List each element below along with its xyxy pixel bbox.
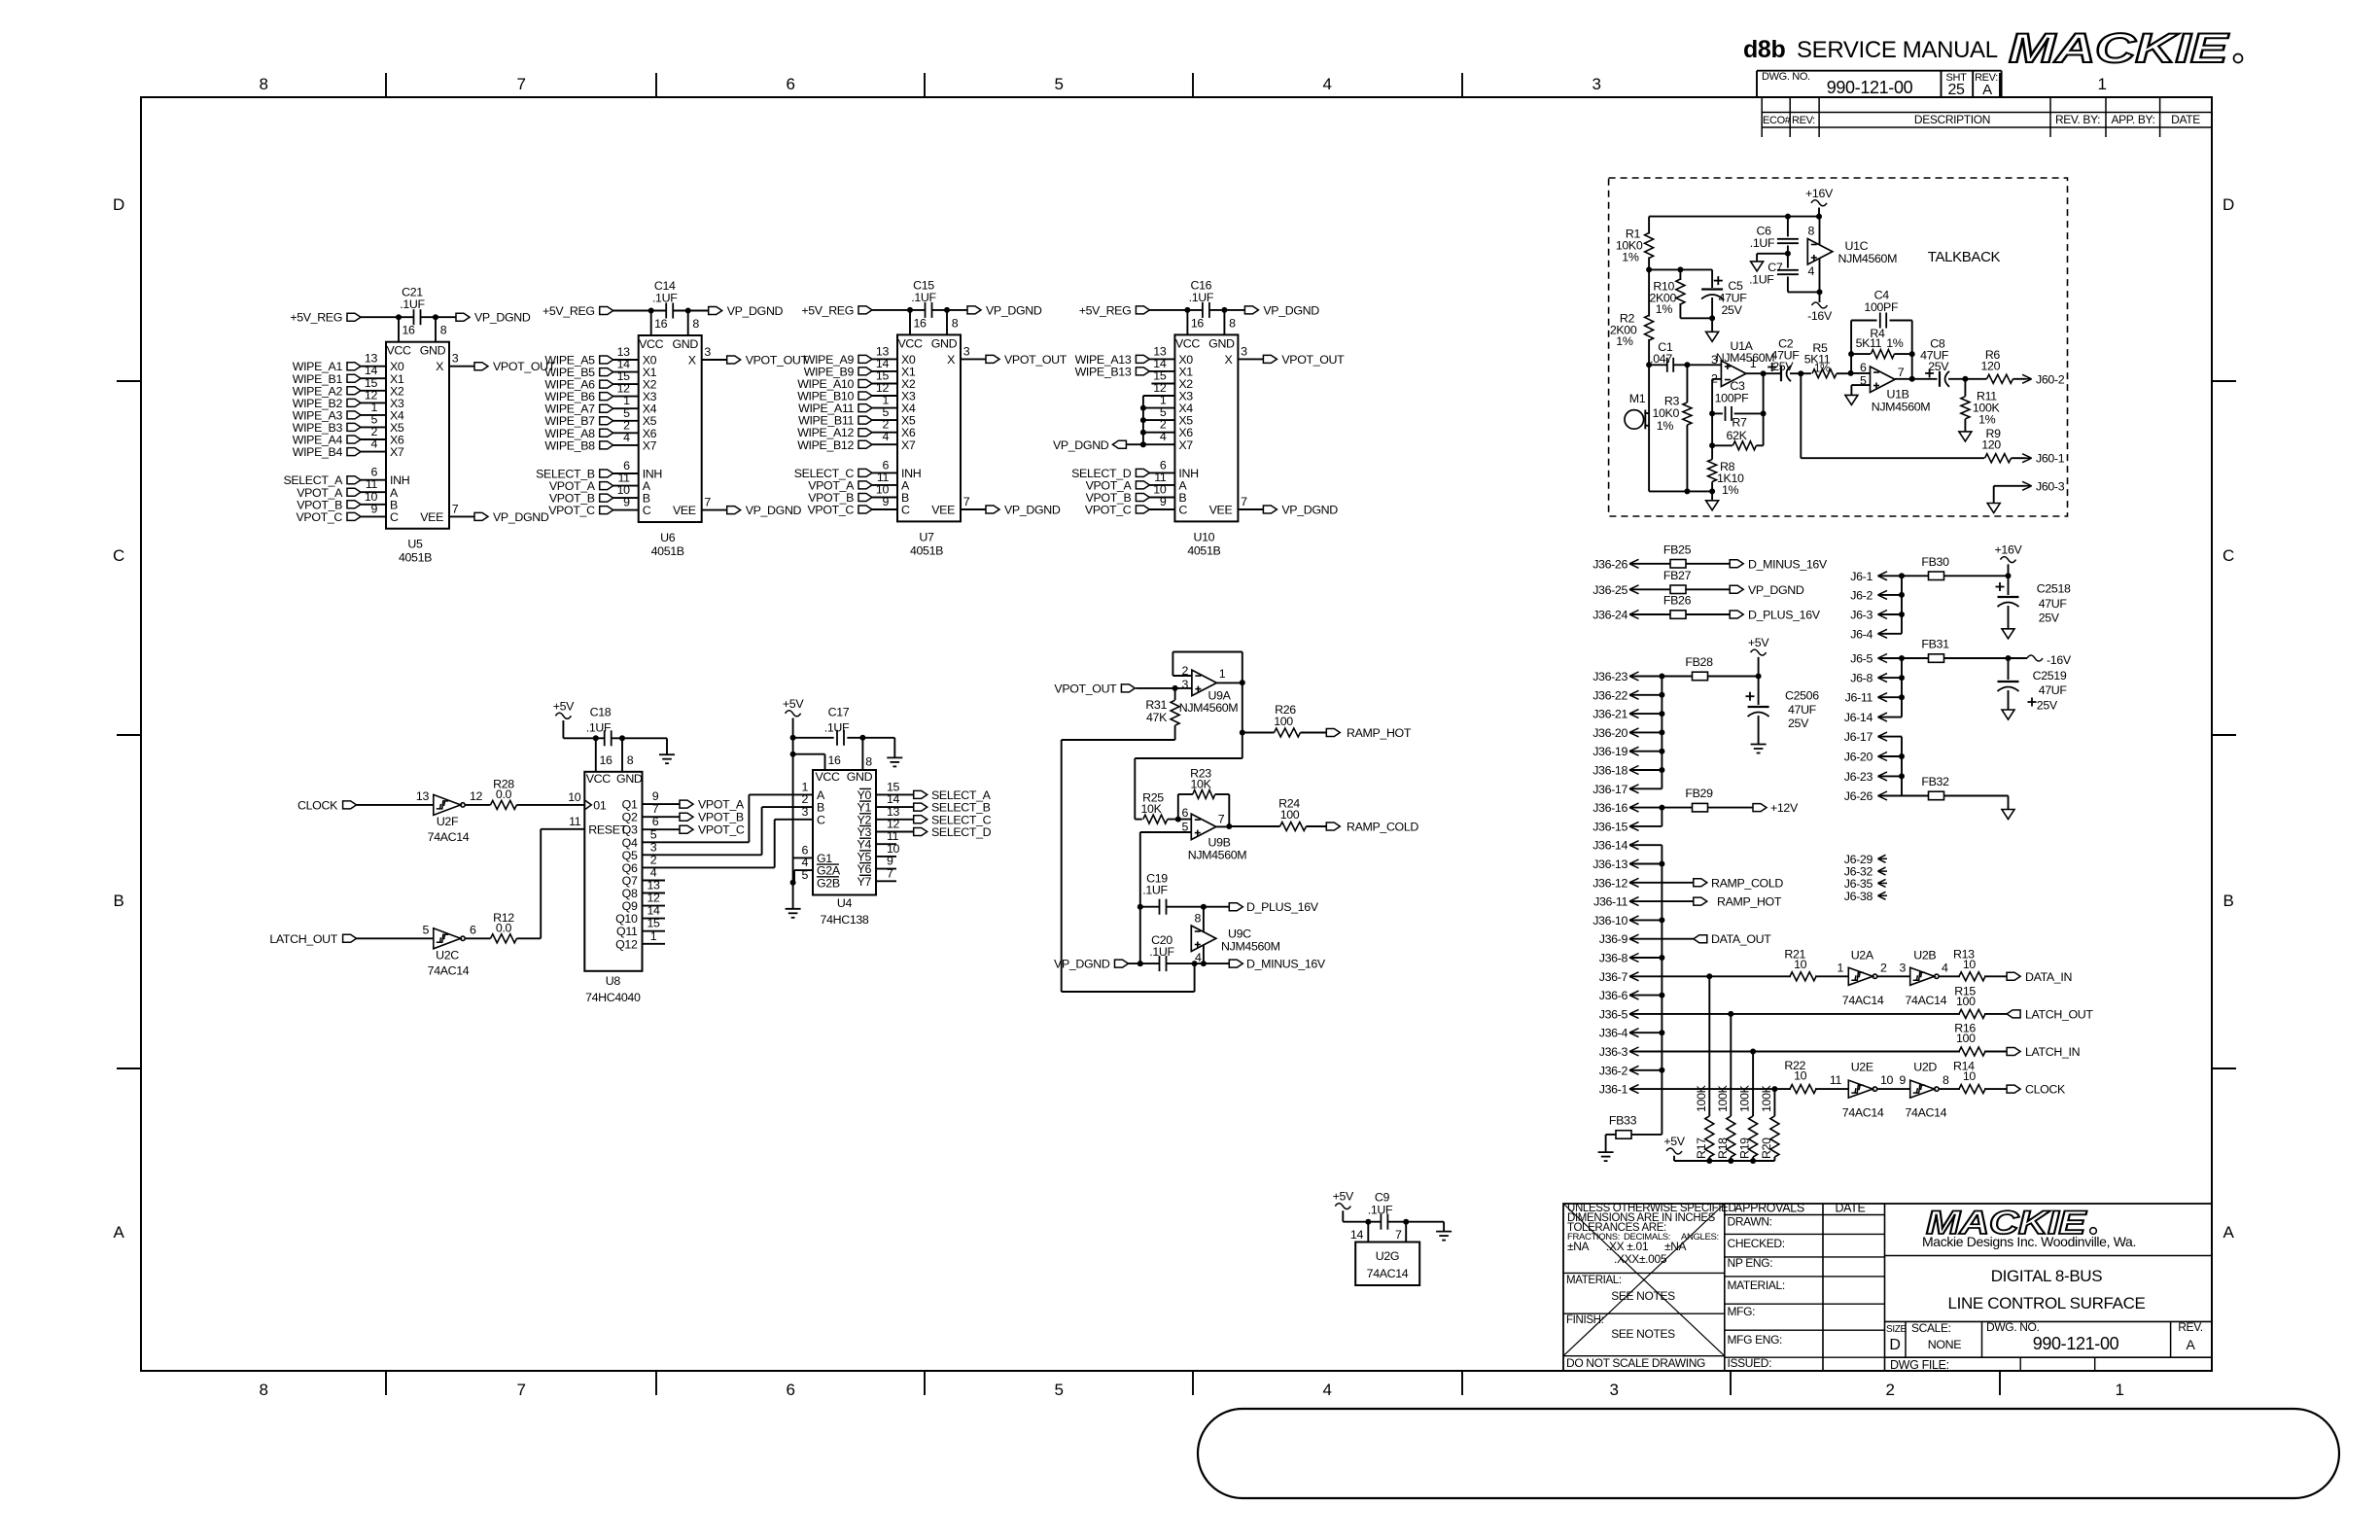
svg-text:J36-17: J36-17: [1592, 783, 1627, 796]
svg-text:J36-14: J36-14: [1592, 839, 1627, 853]
svg-text:Q1: Q1: [622, 798, 638, 812]
svg-text:+12V: +12V: [1770, 801, 1799, 815]
svg-text:U2D: U2D: [1913, 1061, 1937, 1074]
svg-text:8: 8: [1807, 225, 1814, 238]
svg-text:C: C: [2222, 546, 2234, 565]
svg-text:R18: R18: [1716, 1137, 1730, 1159]
svg-text:U1B: U1B: [1886, 388, 1908, 402]
svg-text:6: 6: [1860, 361, 1867, 374]
svg-text:G2B: G2B: [817, 876, 840, 890]
svg-text:10: 10: [1880, 1073, 1894, 1087]
svg-text:X7: X7: [390, 445, 404, 459]
svg-text:J36-8: J36-8: [1599, 952, 1628, 965]
svg-text:J6-4: J6-4: [1850, 627, 1872, 641]
svg-text:J36-15: J36-15: [1592, 820, 1627, 833]
svg-text:74AC14: 74AC14: [1906, 994, 1947, 1007]
svg-text:+5V: +5V: [783, 697, 804, 711]
svg-text:74AC14: 74AC14: [1906, 1106, 1947, 1120]
svg-text:7: 7: [516, 75, 525, 93]
svg-text:±NA: ±NA: [1664, 1240, 1687, 1253]
svg-text:D: D: [1889, 1337, 1900, 1353]
svg-text:3: 3: [1241, 344, 1247, 358]
svg-text:NJM4560M: NJM4560M: [1179, 701, 1239, 715]
svg-text:.1UF: .1UF: [400, 297, 425, 311]
svg-text:CHECKED:: CHECKED:: [1728, 1237, 1785, 1250]
svg-text:5: 5: [1054, 75, 1063, 93]
svg-text:FB31: FB31: [1921, 638, 1949, 651]
svg-text:C2506: C2506: [1785, 689, 1819, 703]
svg-text:Q8: Q8: [622, 887, 638, 900]
svg-text:C18: C18: [590, 706, 612, 719]
svg-text:10: 10: [1794, 1069, 1807, 1083]
svg-text:FB32: FB32: [1921, 775, 1949, 788]
svg-text:100K: 100K: [1738, 1084, 1752, 1112]
svg-text:74HC138: 74HC138: [821, 913, 869, 927]
svg-text:VPOT_OUT: VPOT_OUT: [1004, 353, 1067, 367]
svg-text:J60-3: J60-3: [2036, 479, 2065, 493]
svg-text:VCC: VCC: [897, 336, 923, 350]
svg-text:VCC: VCC: [1175, 336, 1201, 350]
svg-text:WIPE_B12: WIPE_B12: [797, 438, 854, 452]
svg-text:CLOCK: CLOCK: [297, 798, 338, 812]
svg-text:1%: 1%: [1656, 302, 1673, 316]
svg-text:1%: 1%: [1722, 483, 1739, 497]
svg-text:10: 10: [1963, 1069, 1977, 1083]
svg-text:.1UF: .1UF: [1368, 1203, 1393, 1216]
svg-text:LINE CONTROL SURFACE: LINE CONTROL SURFACE: [1947, 1294, 2145, 1312]
svg-text:C: C: [817, 813, 825, 826]
svg-text:NP ENG:: NP ENG:: [1728, 1256, 1773, 1270]
svg-text:10K: 10K: [1191, 778, 1212, 791]
svg-text:R31: R31: [1145, 698, 1167, 712]
svg-text:6: 6: [786, 75, 794, 93]
svg-text:5: 5: [422, 923, 429, 936]
svg-text:100: 100: [1280, 808, 1300, 822]
svg-text:4: 4: [882, 430, 889, 443]
svg-text:Q10: Q10: [615, 912, 638, 926]
svg-text:U2G: U2G: [1376, 1249, 1399, 1263]
svg-text:VEE: VEE: [420, 510, 443, 524]
svg-text:SEE NOTES: SEE NOTES: [1611, 1327, 1675, 1341]
svg-text:MATERIAL:: MATERIAL:: [1566, 1275, 1622, 1286]
svg-text:+5V: +5V: [1663, 1135, 1685, 1148]
svg-text:8: 8: [865, 755, 872, 769]
svg-text:7: 7: [1218, 813, 1225, 826]
svg-text:FB29: FB29: [1685, 787, 1713, 800]
svg-text:7: 7: [1898, 366, 1905, 379]
svg-text:DESCRIPTION: DESCRIPTION: [1914, 113, 1990, 126]
svg-text:FB30: FB30: [1921, 555, 1949, 569]
svg-text:ANGLES:: ANGLES:: [1681, 1232, 1719, 1242]
svg-text:GND: GND: [931, 336, 958, 350]
svg-text:.1UF: .1UF: [1149, 945, 1174, 959]
svg-text:M1: M1: [1629, 392, 1646, 405]
svg-text:7: 7: [452, 502, 459, 515]
svg-text:13: 13: [416, 789, 430, 803]
svg-text:J36-2: J36-2: [1599, 1064, 1628, 1077]
svg-text:WIPE_B4: WIPE_B4: [293, 445, 343, 459]
svg-text:74AC14: 74AC14: [1367, 1267, 1409, 1280]
svg-text:J6-35: J6-35: [1844, 877, 1873, 891]
svg-text:J36-25: J36-25: [1592, 583, 1627, 597]
svg-text:14: 14: [647, 904, 660, 918]
svg-text:C: C: [113, 546, 124, 565]
svg-text:-16V: -16V: [1807, 309, 1833, 323]
svg-text:Mackie Designs Inc. Woodinvi: Mackie Designs Inc. Woodinville, Wa.: [1922, 1234, 2136, 1249]
svg-text:4051B: 4051B: [1187, 543, 1220, 557]
svg-text:1: 1: [650, 929, 657, 943]
svg-text:J36-18: J36-18: [1592, 764, 1627, 778]
svg-text:B: B: [2223, 892, 2234, 910]
svg-text:12: 12: [470, 789, 483, 803]
svg-text:2: 2: [650, 853, 657, 866]
svg-text:8: 8: [627, 753, 634, 767]
svg-text:1: 1: [2115, 1381, 2123, 1399]
svg-text:CLOCK: CLOCK: [2025, 1083, 2066, 1097]
svg-text:Q2: Q2: [622, 811, 638, 824]
svg-text:U8: U8: [606, 974, 621, 988]
svg-text:3: 3: [704, 345, 711, 359]
svg-text:D_MINUS_16V: D_MINUS_16V: [1748, 557, 1828, 571]
svg-text:J60-2: J60-2: [2036, 372, 2065, 386]
svg-text:DATE: DATE: [2171, 113, 2200, 126]
svg-text:APP. BY:: APP. BY:: [2111, 113, 2154, 126]
svg-text:D_PLUS_16V: D_PLUS_16V: [1246, 900, 1319, 914]
svg-text:U6: U6: [660, 531, 676, 544]
svg-text:+16V: +16V: [1995, 543, 2023, 557]
svg-text:VPOT_OUT: VPOT_OUT: [1281, 353, 1345, 367]
svg-text:J36-13: J36-13: [1592, 857, 1627, 871]
svg-text:+5V_REG: +5V_REG: [801, 303, 854, 317]
svg-text:R7: R7: [1732, 416, 1747, 430]
svg-text:0.0: 0.0: [496, 787, 512, 801]
svg-text:J36-3: J36-3: [1599, 1045, 1628, 1059]
svg-text:Q6: Q6: [622, 861, 638, 875]
svg-text:LATCH_OUT: LATCH_OUT: [2025, 1007, 2093, 1021]
svg-text:ISSUED:: ISSUED:: [1728, 1356, 1772, 1370]
svg-text:74HC4040: 74HC4040: [585, 991, 641, 1004]
svg-text:-16V: -16V: [2047, 653, 2072, 667]
svg-text:8: 8: [259, 75, 267, 93]
svg-text:VPOT_OUT: VPOT_OUT: [746, 354, 809, 367]
svg-text:U2F: U2F: [437, 815, 459, 828]
svg-text:3: 3: [1181, 678, 1188, 691]
svg-text:5: 5: [650, 827, 657, 841]
svg-text:100K: 100K: [1760, 1084, 1773, 1112]
svg-text:4: 4: [1942, 961, 1948, 974]
svg-text:8: 8: [440, 324, 447, 337]
svg-text:+5V: +5V: [553, 699, 575, 713]
svg-text:25V: 25V: [1928, 360, 1949, 373]
svg-text:GND: GND: [1208, 336, 1235, 350]
svg-text:DATA_IN: DATA_IN: [2025, 970, 2072, 984]
svg-text:J6-8: J6-8: [1850, 672, 1872, 685]
svg-text:10: 10: [568, 790, 581, 804]
svg-text:J6-20: J6-20: [1844, 751, 1873, 764]
svg-text:.1UF: .1UF: [1750, 236, 1775, 250]
svg-text:J6-5: J6-5: [1850, 652, 1872, 666]
svg-text:10: 10: [1794, 958, 1807, 971]
svg-text:VP_DGND: VP_DGND: [1281, 504, 1338, 517]
svg-text:VCC: VCC: [586, 772, 612, 786]
svg-text:4: 4: [650, 866, 657, 880]
svg-text:100: 100: [1956, 995, 1976, 1008]
svg-text:Q4: Q4: [622, 836, 638, 850]
svg-text:+5V_REG: +5V_REG: [290, 311, 342, 325]
svg-text:25V: 25V: [2037, 699, 2058, 713]
svg-text:3: 3: [452, 352, 459, 366]
svg-text:4: 4: [623, 431, 630, 444]
svg-text:47UF: 47UF: [2039, 683, 2068, 697]
svg-text:8: 8: [1942, 1073, 1949, 1087]
svg-text:R17: R17: [1695, 1137, 1708, 1159]
svg-text:X7: X7: [1178, 438, 1193, 452]
svg-text:47UF: 47UF: [1788, 703, 1817, 717]
svg-text:D: D: [113, 195, 124, 214]
svg-text:Q5: Q5: [622, 849, 638, 862]
svg-text:47K: 47K: [1146, 711, 1168, 724]
svg-text:.047: .047: [1650, 352, 1672, 366]
svg-text:2: 2: [1885, 1381, 1894, 1399]
svg-text:2: 2: [1181, 664, 1188, 678]
svg-text:1%: 1%: [1622, 250, 1639, 263]
svg-text:15: 15: [647, 917, 660, 930]
svg-text:J36-5: J36-5: [1599, 1007, 1628, 1021]
svg-text:RAMP_HOT: RAMP_HOT: [1717, 895, 1782, 909]
svg-text:Q7: Q7: [622, 874, 638, 888]
svg-text:100PF: 100PF: [1864, 300, 1899, 314]
svg-text:Q12: Q12: [615, 937, 638, 951]
svg-text:APPROVALS: APPROVALS: [1734, 1202, 1804, 1215]
svg-text:VEE: VEE: [1209, 504, 1233, 517]
svg-text:3: 3: [801, 805, 808, 819]
svg-text:11: 11: [569, 815, 581, 828]
svg-text:16: 16: [827, 753, 841, 767]
svg-text:VEE: VEE: [673, 504, 696, 517]
svg-text:J6-2: J6-2: [1850, 588, 1872, 602]
svg-text:D_PLUS_16V: D_PLUS_16V: [1748, 609, 1821, 622]
svg-text:U9B: U9B: [1207, 836, 1230, 850]
svg-text:16: 16: [402, 324, 415, 337]
svg-text:VP_DGND: VP_DGND: [986, 303, 1042, 317]
svg-text:VPOT_C: VPOT_C: [1085, 504, 1132, 517]
svg-text:NJM4560M: NJM4560M: [1188, 849, 1247, 862]
svg-text:Q3: Q3: [622, 823, 638, 837]
svg-text:990-121-00: 990-121-00: [2033, 1334, 2119, 1353]
svg-text:.1UF: .1UF: [911, 291, 936, 304]
svg-text:MACKIE: MACKIE: [2009, 25, 2229, 72]
svg-text:VPOT_B: VPOT_B: [698, 811, 744, 824]
svg-text:1%: 1%: [1616, 334, 1633, 348]
svg-text:D: D: [2222, 195, 2234, 214]
svg-text:Y7: Y7: [857, 875, 872, 889]
svg-text:U2A: U2A: [1851, 948, 1874, 962]
svg-text:DATE: DATE: [1835, 1202, 1865, 1215]
svg-text:120: 120: [1981, 438, 2001, 452]
svg-text:J36-16: J36-16: [1592, 801, 1627, 815]
svg-text:VPOT_C: VPOT_C: [297, 510, 343, 524]
svg-text:6: 6: [652, 815, 659, 828]
svg-text:VP_DGND: VP_DGND: [1054, 958, 1110, 971]
svg-text:1%: 1%: [1978, 412, 1996, 426]
svg-text:.1UF: .1UF: [652, 292, 678, 305]
svg-text:990-121-00: 990-121-00: [1827, 78, 1913, 97]
svg-text:U4: U4: [837, 896, 853, 910]
svg-text:GND: GND: [420, 344, 446, 358]
svg-text:74AC14: 74AC14: [428, 964, 470, 978]
svg-text:100: 100: [1956, 1032, 1976, 1045]
svg-text:8: 8: [1194, 912, 1201, 926]
svg-text:J6-1: J6-1: [1850, 570, 1872, 583]
svg-text:.1UF: .1UF: [1189, 291, 1214, 304]
svg-text:VP_DGND: VP_DGND: [1748, 583, 1804, 597]
svg-text:SERVICE MANUAL: SERVICE MANUAL: [1797, 37, 1998, 63]
svg-text:3: 3: [963, 344, 970, 358]
svg-text:J6-38: J6-38: [1844, 890, 1873, 903]
svg-text:7: 7: [652, 802, 659, 816]
svg-text:NONE: NONE: [1928, 1338, 1961, 1351]
svg-text:U2B: U2B: [1913, 948, 1936, 962]
svg-text:62K: 62K: [1727, 429, 1748, 442]
svg-text:1%: 1%: [1814, 364, 1830, 375]
svg-text:9: 9: [623, 496, 630, 509]
svg-text:REV. BY:: REV. BY:: [2055, 113, 2100, 126]
svg-text:VP_DGND: VP_DGND: [746, 504, 802, 517]
svg-text:J6-11: J6-11: [1845, 691, 1873, 705]
svg-text:.1UF: .1UF: [1142, 884, 1168, 897]
svg-text:RAMP_HOT: RAMP_HOT: [1347, 726, 1412, 740]
svg-text:J36-19: J36-19: [1592, 745, 1627, 758]
svg-text:VPOT_C: VPOT_C: [698, 823, 745, 837]
svg-text:+16V: +16V: [1805, 187, 1834, 200]
svg-text:25V: 25V: [1788, 717, 1809, 730]
svg-text:U1C: U1C: [1845, 239, 1869, 253]
svg-text:74AC14: 74AC14: [428, 830, 470, 844]
svg-text:8: 8: [1229, 316, 1236, 330]
svg-text:J36-4: J36-4: [1599, 1027, 1628, 1040]
svg-text:.XX ±.01: .XX ±.01: [1606, 1240, 1649, 1253]
svg-text:100K: 100K: [1695, 1084, 1708, 1112]
svg-text:7: 7: [963, 495, 970, 508]
svg-text:J36-1: J36-1: [1599, 1083, 1628, 1097]
svg-text:Q9: Q9: [622, 899, 638, 913]
svg-text:9: 9: [1899, 1073, 1906, 1087]
svg-text:3: 3: [650, 840, 657, 854]
svg-text:100K: 100K: [1716, 1084, 1730, 1112]
svg-text:+5V_REG: +5V_REG: [542, 304, 595, 318]
svg-text:.1UF: .1UF: [1749, 273, 1774, 287]
svg-text:+5V: +5V: [1333, 1190, 1354, 1204]
svg-text:SIZE: SIZE: [1886, 1324, 1907, 1335]
svg-text:A: A: [1982, 82, 1992, 98]
svg-text:DWG. NO.: DWG. NO.: [1762, 71, 1810, 83]
svg-text:13: 13: [647, 879, 660, 892]
svg-text:C9: C9: [1375, 1190, 1390, 1204]
svg-text:16: 16: [654, 317, 668, 331]
svg-text:DRAWN:: DRAWN:: [1728, 1215, 1772, 1229]
svg-text:J36-7: J36-7: [1599, 970, 1628, 984]
svg-text:U5: U5: [407, 538, 423, 551]
svg-text:J36-23: J36-23: [1592, 670, 1627, 683]
svg-text:DO NOT SCALE DRAWING: DO NOT SCALE DRAWING: [1566, 1356, 1705, 1370]
svg-text:C: C: [901, 504, 910, 517]
svg-text:7: 7: [1395, 1228, 1402, 1242]
svg-text:VP_DGND: VP_DGND: [493, 510, 549, 524]
svg-text:DATA_OUT: DATA_OUT: [1711, 932, 1771, 946]
svg-text:FB33: FB33: [1609, 1113, 1637, 1127]
svg-text:1: 1: [2097, 75, 2106, 93]
svg-text:VPOT_A: VPOT_A: [698, 798, 745, 812]
svg-text:J36-20: J36-20: [1592, 726, 1627, 740]
svg-text:NJM4560M: NJM4560M: [1716, 351, 1775, 365]
svg-text:VPOT_C: VPOT_C: [548, 504, 595, 517]
svg-text:01: 01: [593, 798, 607, 812]
svg-text:.1UF: .1UF: [824, 720, 850, 734]
svg-text:GND: GND: [616, 772, 643, 786]
svg-text:3: 3: [1899, 961, 1906, 974]
svg-text:REV.: REV.: [2178, 1320, 2203, 1334]
svg-text:0.0: 0.0: [496, 922, 512, 935]
svg-text:NJM4560M: NJM4560M: [1838, 252, 1898, 265]
svg-text:25V: 25V: [2039, 612, 2060, 625]
svg-text:A: A: [2223, 1223, 2235, 1242]
svg-text:X: X: [436, 360, 443, 373]
svg-text:ECO#: ECO#: [1763, 115, 1792, 126]
svg-text:+5V_REG: +5V_REG: [1079, 303, 1132, 317]
svg-text:C2519: C2519: [2033, 669, 2067, 682]
svg-text:J6-23: J6-23: [1844, 770, 1873, 784]
svg-text:D_MINUS_16V: D_MINUS_16V: [1246, 958, 1326, 971]
svg-text:VCC: VCC: [386, 344, 411, 358]
svg-text:16: 16: [1191, 316, 1205, 330]
svg-text:J36-12: J36-12: [1592, 876, 1627, 890]
svg-text:U10: U10: [1194, 530, 1215, 543]
svg-text:TALKBACK: TALKBACK: [1928, 249, 2001, 265]
svg-text:±NA: ±NA: [1567, 1240, 1590, 1253]
svg-text:VP_DGND: VP_DGND: [1263, 303, 1319, 317]
svg-text:WIPE_B13: WIPE_B13: [1075, 365, 1132, 378]
svg-text:.1UF: .1UF: [586, 720, 612, 734]
svg-text:4051B: 4051B: [651, 544, 684, 558]
svg-text:10K: 10K: [1141, 802, 1163, 816]
svg-text:100: 100: [1274, 715, 1293, 728]
svg-text:9: 9: [1160, 495, 1167, 508]
svg-text:9: 9: [370, 502, 377, 515]
svg-text:J36-22: J36-22: [1592, 688, 1627, 702]
svg-text:GND: GND: [847, 770, 873, 784]
svg-text:J36-21: J36-21: [1592, 708, 1627, 721]
svg-text:C: C: [390, 510, 399, 524]
svg-text:1%: 1%: [1657, 419, 1674, 433]
svg-text:MFG:: MFG:: [1728, 1305, 1756, 1318]
svg-text:NJM4560M: NJM4560M: [1872, 401, 1931, 414]
svg-text:J36-11: J36-11: [1593, 895, 1627, 909]
svg-text:5K11: 5K11: [1856, 336, 1882, 350]
svg-text:REV:: REV:: [1792, 115, 1815, 126]
svg-text:4051B: 4051B: [399, 551, 432, 565]
svg-text:RAMP_COLD: RAMP_COLD: [1711, 876, 1783, 890]
svg-text:4051B: 4051B: [910, 543, 943, 557]
svg-text:4: 4: [1322, 75, 1331, 93]
svg-text:U7: U7: [919, 530, 934, 543]
svg-text:A: A: [114, 1223, 125, 1242]
svg-text:25: 25: [1947, 82, 1965, 98]
svg-text:U9C: U9C: [1228, 927, 1251, 941]
svg-text:X: X: [947, 353, 955, 367]
svg-text:74AC14: 74AC14: [1842, 994, 1884, 1007]
svg-text:VCC: VCC: [639, 337, 664, 351]
svg-text:X: X: [1224, 353, 1232, 367]
